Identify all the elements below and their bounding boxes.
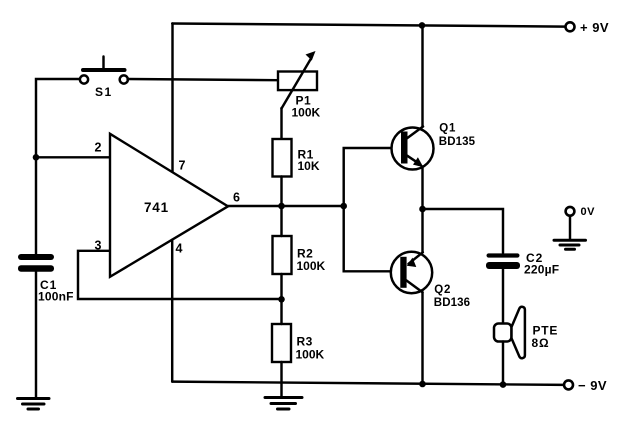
svg-text:2: 2 [95,141,102,155]
svg-text:Q1: Q1 [439,123,456,135]
wire Q2 collector to bottom rail [421,292,423,384]
svg-text:220µF: 220µF [524,263,559,277]
wire emitter column Q1-Q2 [421,167,423,253]
wire R2 bottom to feedback node [280,274,282,299]
svg-text:4: 4 [176,242,183,256]
node junction output / R1R2 [278,203,285,210]
node junction output / base column [340,203,347,210]
wire pin7 column [171,24,173,172]
svg-text:100K: 100K [297,259,326,273]
wire emitters to C2 [423,209,504,253]
node junction speaker / rail [500,381,507,388]
capacitor C2 220uF [486,251,559,277]
wire R1 bottom to node 6 [280,177,282,207]
resistor R1 10K [273,139,320,177]
node junction emitters / output coupling [419,206,426,213]
wire top rail +9V [172,24,565,27]
wire speaker to bottom rail [502,342,504,385]
wire bottom rail -9V [172,382,564,385]
svg-text:S1: S1 [95,85,113,99]
switch S1 [80,57,128,100]
svg-text:8Ω: 8Ω [532,336,550,350]
potentiometer P1 [278,51,321,120]
wire pin 3 dogleg to feedback node [78,251,282,299]
svg-text:741: 741 [144,200,169,215]
capacitor C1 100nF [18,254,74,304]
svg-text:BD135: BD135 [439,136,476,148]
node junction pin2 / C1 [33,154,40,161]
op-amp U1 741 [95,134,241,277]
svg-text:0V: 0V [581,206,596,218]
svg-text:Q2: Q2 [434,284,451,296]
wire base column (pin6 to Q1/Q2 bases) [344,148,401,271]
svg-text:R3: R3 [297,335,313,349]
wire C2 to speaker [502,269,504,324]
svg-text:− 9V: − 9V [578,378,607,393]
ground at 0V [554,240,586,249]
terminal 0V [566,206,596,240]
wire pin 4 down to bottom rail [171,240,173,382]
svg-text:+ 9V: + 9V [580,20,609,35]
svg-text:7: 7 [179,159,186,173]
svg-text:100K: 100K [292,106,321,120]
terminal -9V [564,378,607,393]
svg-text:BD136: BD136 [434,297,470,309]
wire R3 bottom to ground [280,362,282,397]
node junction top rail to Q1 collector [419,22,426,29]
resistor R2 100K [273,236,326,274]
ground under C1 [18,399,50,410]
ground under R3 [265,398,302,410]
svg-text:100nF: 100nF [38,290,74,304]
wire R3 top [280,299,282,324]
transistor Q2 BD136 [391,252,470,309]
wire Q1 collector to top rail [421,25,423,127]
svg-text:10K: 10K [298,159,320,173]
wire pin 2 [36,156,109,158]
wire S1 left to left column [36,79,80,255]
terminal +9V [566,20,610,35]
wire R2 top [280,206,282,236]
svg-text:6: 6 [233,191,240,205]
node junction Q2 collector / rail [419,381,426,388]
wire S1 right to P1 [128,79,279,80]
wire node 6 output [228,205,344,207]
transistor Q1 BD135 [392,123,476,170]
wire P1 to R1 [280,108,282,139]
speaker PTE 8ohm [494,307,558,358]
resistor R3 100K [272,324,325,362]
node junction R2/R3/feedback [278,296,285,303]
svg-text:100K: 100K [296,348,325,362]
wire C1 bottom to ground [35,272,37,398]
